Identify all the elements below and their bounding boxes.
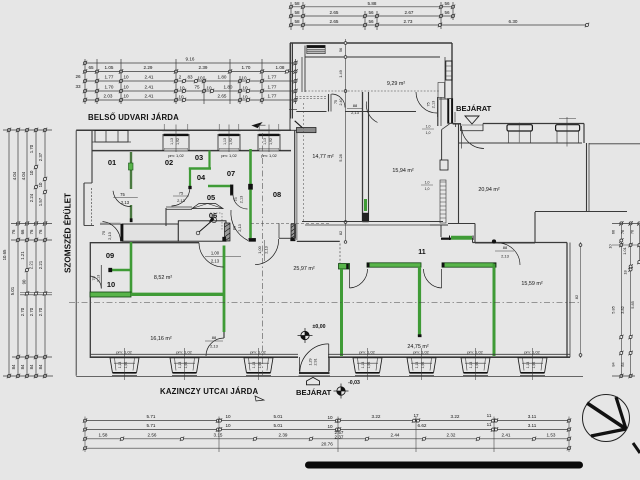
hatched pier A xyxy=(225,223,231,241)
svg-text:75: 75 xyxy=(234,197,238,201)
svg-text:56: 56 xyxy=(444,1,450,6)
svg-text:10: 10 xyxy=(179,86,185,91)
corridor door jambs xyxy=(437,97,439,117)
wall room01 top window bumps xyxy=(95,131,128,143)
svg-text:2,13: 2,13 xyxy=(121,200,130,205)
svg-text:pm: 1,02: pm: 1,02 xyxy=(524,350,540,355)
green wall room11 bottom left segment xyxy=(367,263,421,267)
svg-text:84: 84 xyxy=(11,364,16,369)
svg-text:2,13: 2,13 xyxy=(211,259,220,264)
dimension row 9.16 xyxy=(85,62,296,64)
svg-text:8,52 m²: 8,52 m² xyxy=(154,275,172,281)
green segment wall 15,94 xyxy=(364,199,367,211)
svg-text:14,77 m²: 14,77 m² xyxy=(312,154,333,160)
svg-text:3.22: 3.22 xyxy=(372,414,381,419)
wall between 14,77 and 15,94 xyxy=(362,92,364,222)
svg-text:2.65: 2.65 xyxy=(330,10,339,15)
hatched pier B xyxy=(291,224,296,238)
svg-text:9,29 m²: 9,29 m² xyxy=(387,81,405,87)
wall lower-left top xyxy=(90,242,199,244)
dimension row top-right 3 (58 2.65 56 2.73 / 6.30) xyxy=(291,24,587,26)
room06 circle xyxy=(211,217,216,222)
door arc room 15,59 xyxy=(498,243,520,265)
window box WR2 xyxy=(556,125,580,131)
svg-text:66: 66 xyxy=(611,230,616,234)
svg-text:2.24: 2.24 xyxy=(29,193,34,202)
window trapezoid bottom xyxy=(170,358,199,373)
svg-text:pm: 1,02: pm: 1,02 xyxy=(359,350,375,355)
svg-text:3.11: 3.11 xyxy=(528,414,537,419)
dimension row (65 1.05 2.29 2.39 1.70 1.08) xyxy=(85,71,296,73)
wall top right section outer xyxy=(483,123,584,125)
svg-text:88: 88 xyxy=(212,335,217,340)
entrance door top xyxy=(460,124,462,132)
svg-text:KAZINCZY UTCAI JÁRDA: KAZINCZY UTCAI JÁRDA xyxy=(160,387,258,396)
green wall 09/10 right xyxy=(130,242,133,294)
green wall 07/08 xyxy=(249,149,252,184)
svg-text:58: 58 xyxy=(294,19,300,24)
black pier wall 15,94 xyxy=(363,213,369,222)
svg-text:1,13: 1,13 xyxy=(223,138,227,145)
svg-text:56: 56 xyxy=(444,10,450,15)
svg-text:2,13: 2,13 xyxy=(210,344,219,349)
svg-text:03: 03 xyxy=(195,153,203,162)
svg-text:2.41: 2.41 xyxy=(145,75,154,80)
svg-text:1.53: 1.53 xyxy=(547,432,556,437)
svg-text:1,92: 1,92 xyxy=(176,138,180,145)
svg-text:2,40: 2,40 xyxy=(339,99,343,106)
door arc 8,52 top xyxy=(199,243,224,267)
wall 15,94 right double xyxy=(437,97,439,126)
svg-text:3.82: 3.82 xyxy=(620,306,625,314)
sidewalk line xyxy=(76,376,583,378)
left dimension tick rows xyxy=(7,128,11,132)
wall top outer line xyxy=(76,129,291,131)
svg-text:10: 10 xyxy=(327,424,333,429)
svg-text:1,13: 1,13 xyxy=(170,138,174,145)
svg-text:pm: 1,02: pm: 1,02 xyxy=(413,350,429,355)
wall bottom of middle rooms xyxy=(302,221,443,223)
svg-text:6.30: 6.30 xyxy=(509,19,518,24)
entrance arrow bottom xyxy=(307,377,320,384)
black dot on wall xyxy=(492,240,496,244)
svg-text:2.41: 2.41 xyxy=(145,94,154,99)
svg-text:BELSŐ UDVARI JÁRDA: BELSŐ UDVARI JÁRDA xyxy=(88,113,179,122)
svg-text:1.08: 1.08 xyxy=(276,65,285,70)
wall niche right of room08 xyxy=(279,237,291,239)
wall left outer lower xyxy=(89,242,91,358)
svg-text:2.21: 2.21 xyxy=(29,260,34,269)
svg-text:-0,03: -0,03 xyxy=(348,380,360,386)
svg-text:04: 04 xyxy=(197,173,206,182)
door box right xyxy=(448,99,453,124)
scale bar xyxy=(305,462,583,469)
svg-text:pm: 1,02: pm: 1,02 xyxy=(467,350,483,355)
wall right outer xyxy=(566,243,568,358)
svg-text:4.04: 4.04 xyxy=(12,171,17,180)
svg-text:2.65: 2.65 xyxy=(330,19,339,24)
svg-text:1,0: 1,0 xyxy=(425,187,430,191)
svg-text:16,16 m²: 16,16 m² xyxy=(150,336,171,342)
svg-text:84: 84 xyxy=(29,364,34,369)
svg-text:pm: 1,02: pm: 1,02 xyxy=(250,350,266,355)
svg-text:1,13: 1,13 xyxy=(252,362,256,369)
svg-text:2.70: 2.70 xyxy=(38,307,43,316)
right dimension ticks xyxy=(619,221,623,225)
svg-text:20,94 m²: 20,94 m² xyxy=(478,187,499,193)
svg-text:2,13: 2,13 xyxy=(351,110,360,115)
wall bottom 20,94 steps xyxy=(448,223,475,225)
wall step above room 11 xyxy=(440,225,442,237)
svg-text:1,0: 1,0 xyxy=(426,125,431,129)
section line vertical dash-dot xyxy=(262,133,264,375)
svg-text:SZOMSZÉD ÉPÜLET: SZOMSZÉD ÉPÜLET xyxy=(63,193,73,273)
window trapezoid bottom xyxy=(244,358,273,373)
svg-text:2.32: 2.32 xyxy=(447,432,456,437)
window trapezoid bottom xyxy=(518,358,547,373)
svg-text:4.04: 4.04 xyxy=(21,171,26,180)
svg-text:5.88: 5.88 xyxy=(368,1,377,6)
wall left inner face lower xyxy=(83,183,85,226)
svg-text:10: 10 xyxy=(242,86,248,91)
wall top of room 25,97 xyxy=(297,240,340,242)
wall stub room 14,77 left xyxy=(297,128,317,133)
svg-text:1.77: 1.77 xyxy=(268,75,277,80)
svg-text:65: 65 xyxy=(88,65,94,70)
wall bottom main xyxy=(90,356,298,358)
green block at wall01 top xyxy=(129,163,134,170)
svg-text:BEJÁRAT: BEJÁRAT xyxy=(296,388,332,397)
svg-text:2,13: 2,13 xyxy=(432,101,436,108)
window in top wall 9,29 xyxy=(307,45,325,48)
left dimension horizontal connectors xyxy=(3,129,52,131)
svg-text:2.21: 2.21 xyxy=(38,260,43,269)
svg-text:75: 75 xyxy=(179,191,184,196)
svg-text:11: 11 xyxy=(418,249,426,256)
svg-text:pm: 1,02: pm: 1,02 xyxy=(176,350,192,355)
entrance door bottom opening xyxy=(298,357,300,371)
svg-text:1,92: 1,92 xyxy=(367,362,371,369)
svg-text:82: 82 xyxy=(338,231,343,235)
mini dim 82 left of step xyxy=(345,225,347,242)
svg-text:76: 76 xyxy=(11,229,16,234)
svg-text:1,92: 1,92 xyxy=(229,138,233,145)
svg-text:1,92: 1,92 xyxy=(184,362,188,369)
svg-text:1,13: 1,13 xyxy=(361,362,365,369)
wall left step xyxy=(84,182,92,184)
svg-text:5.28: 5.28 xyxy=(338,154,343,162)
svg-text:1.70: 1.70 xyxy=(29,144,34,153)
svg-text:10: 10 xyxy=(178,95,184,100)
svg-text:33: 33 xyxy=(75,84,81,89)
entrance arrow top xyxy=(465,116,479,124)
green wall room07 bottom xyxy=(208,185,231,188)
green vertical x224 xyxy=(223,237,226,241)
wall middle-left inner face xyxy=(301,57,303,92)
svg-text:1,0: 1,0 xyxy=(426,131,431,135)
svg-text:2,91: 2,91 xyxy=(314,359,318,366)
svg-text:10: 10 xyxy=(29,170,34,175)
svg-text:1,13: 1,13 xyxy=(415,362,419,369)
window box top wall xyxy=(162,129,189,131)
svg-text:2.44: 2.44 xyxy=(391,432,400,437)
svg-text:2.70: 2.70 xyxy=(29,307,34,316)
svg-text:58: 58 xyxy=(294,10,300,15)
svg-text:75: 75 xyxy=(334,100,338,104)
wall 9,29 inner left face xyxy=(304,46,306,93)
svg-text:1.49: 1.49 xyxy=(338,70,343,78)
compass arrow lines xyxy=(587,403,626,429)
svg-text:58: 58 xyxy=(294,1,300,6)
svg-text:BEJÁRAT: BEJÁRAT xyxy=(456,104,492,113)
wall 05 left xyxy=(165,208,167,226)
svg-text:5.01: 5.01 xyxy=(274,414,283,419)
window box top wall xyxy=(257,129,280,131)
svg-text:1,00: 1,00 xyxy=(257,245,262,253)
svg-text:1.57: 1.57 xyxy=(38,197,43,206)
entrance door sill xyxy=(299,372,330,374)
svg-text:pm: 1,02: pm: 1,02 xyxy=(116,350,132,355)
svg-text:75: 75 xyxy=(92,276,96,280)
door sill room01-09 xyxy=(100,222,121,224)
svg-text:11: 11 xyxy=(487,413,492,418)
mini vertical dim 56/1.49/5.28 xyxy=(345,39,347,225)
svg-text:10: 10 xyxy=(197,76,203,81)
svg-text:10: 10 xyxy=(107,280,115,289)
wall top of 15,59 xyxy=(496,242,567,244)
svg-text:±0,00: ±0,00 xyxy=(313,324,326,330)
svg-text:88: 88 xyxy=(353,103,358,108)
svg-text:75: 75 xyxy=(101,230,106,235)
wall top main inner (rooms 02-08) xyxy=(92,150,291,152)
svg-text:1.70: 1.70 xyxy=(105,85,114,90)
svg-text:20.76: 20.76 xyxy=(321,442,333,447)
svg-text:1.77: 1.77 xyxy=(105,75,114,80)
svg-text:10: 10 xyxy=(206,86,212,91)
wall corner to entrance xyxy=(449,122,456,124)
svg-text:5.01: 5.01 xyxy=(10,286,15,295)
right dimension column lines xyxy=(620,223,622,376)
dimension row top-right 2 (58 2.65 56 2.67 56) xyxy=(291,15,453,17)
svg-text:09: 09 xyxy=(106,251,114,260)
svg-text:2.70: 2.70 xyxy=(20,307,25,316)
wall room01 top inner xyxy=(92,141,131,143)
svg-text:1,92: 1,92 xyxy=(532,362,536,369)
svg-text:1.21: 1.21 xyxy=(20,251,25,260)
svg-text:88: 88 xyxy=(232,226,237,230)
svg-text:05: 05 xyxy=(207,193,215,202)
svg-text:5.71: 5.71 xyxy=(147,414,156,419)
svg-text:2.29: 2.29 xyxy=(144,65,153,70)
svg-text:5.01: 5.01 xyxy=(274,423,283,428)
svg-text:1,92: 1,92 xyxy=(258,362,262,369)
svg-text:56: 56 xyxy=(368,19,374,24)
svg-text:1,00: 1,00 xyxy=(211,251,220,256)
dashed line room08 band xyxy=(251,222,330,224)
door room01 G1 arc xyxy=(113,191,131,207)
svg-text:2.39: 2.39 xyxy=(279,432,288,437)
green long wall under 8,52 thick part xyxy=(90,292,131,297)
svg-text:10: 10 xyxy=(241,76,247,81)
svg-text:2.41: 2.41 xyxy=(145,85,154,90)
svg-text:2.67: 2.67 xyxy=(405,10,414,15)
door arc room01-09 left xyxy=(103,222,121,242)
svg-text:15,94 m²: 15,94 m² xyxy=(392,168,413,174)
svg-text:2,13: 2,13 xyxy=(107,231,112,240)
window niche dashed face xyxy=(90,188,92,225)
svg-text:90: 90 xyxy=(22,279,27,284)
green wall room03 right xyxy=(208,151,210,169)
pier near 20,94 xyxy=(440,160,448,170)
dimension row (33 | 1.70 10 2.41 10 75 10 1.80 10 1.77) xyxy=(85,90,296,92)
svg-text:2,13: 2,13 xyxy=(237,224,242,232)
dimension vertical guides top-left xyxy=(84,59,86,104)
svg-text:56: 56 xyxy=(338,48,343,52)
green wall left vertical (x341) xyxy=(339,264,350,270)
svg-text:3.11: 3.11 xyxy=(528,423,537,428)
svg-text:2.37: 2.37 xyxy=(335,434,344,439)
green partition right xyxy=(493,264,496,357)
window box right wall 9,29 xyxy=(446,61,452,80)
dashed link to green wall xyxy=(339,244,341,264)
svg-text:2.73: 2.73 xyxy=(404,19,413,24)
svg-text:10: 10 xyxy=(123,94,129,99)
svg-text:2.65: 2.65 xyxy=(218,94,227,99)
wall right outer of 20,94 xyxy=(583,124,585,144)
green long wall under 8,52 xyxy=(131,293,225,296)
svg-text:82: 82 xyxy=(574,294,579,299)
wall left inner face upper xyxy=(91,131,93,183)
svg-text:02: 02 xyxy=(165,158,173,167)
bottom dim row 1 xyxy=(85,420,569,422)
svg-text:66: 66 xyxy=(20,229,25,234)
svg-text:2,13: 2,13 xyxy=(264,246,269,254)
green wall room04 top xyxy=(189,167,211,169)
wall left property line xyxy=(75,131,77,376)
corridor lines xyxy=(296,96,327,98)
green wall room11 bottom right segment xyxy=(442,263,496,267)
arrow mark near wall top xyxy=(253,123,262,128)
svg-text:08: 08 xyxy=(273,190,281,199)
svg-text:1,13: 1,13 xyxy=(118,362,122,369)
door arc 08 to corridor xyxy=(255,239,279,265)
svg-text:2.56: 2.56 xyxy=(148,432,157,437)
svg-text:1,0: 1,0 xyxy=(425,181,430,185)
svg-text:1.80: 1.80 xyxy=(224,85,233,90)
window trapezoid bottom xyxy=(407,358,436,373)
svg-text:07: 07 xyxy=(227,169,235,178)
wall left corner bottom xyxy=(84,225,94,227)
svg-text:10.65: 10.65 xyxy=(2,249,7,260)
entrance door leaf and arc xyxy=(328,344,330,373)
wall right of 9,29 room outer xyxy=(451,43,453,99)
svg-text:10: 10 xyxy=(38,182,43,187)
svg-text:1.80: 1.80 xyxy=(218,75,227,80)
door arc room11 middle opening xyxy=(441,269,443,288)
svg-text:75: 75 xyxy=(194,85,200,90)
wall top-middle outer xyxy=(290,42,452,44)
wall middle-left upper double xyxy=(289,43,291,119)
svg-text:pm: 1,02: pm: 1,02 xyxy=(261,153,277,158)
door arc corridor right xyxy=(416,92,437,113)
svg-text:83: 83 xyxy=(187,75,193,80)
door arc 16,16 bottom right xyxy=(206,338,224,356)
svg-text:1,92: 1,92 xyxy=(269,138,273,145)
door arc corridor middle xyxy=(366,102,377,123)
svg-text:5.85: 5.85 xyxy=(611,306,616,314)
right dimension horizontal connectors xyxy=(612,222,640,224)
svg-text:26: 26 xyxy=(75,74,81,79)
svg-text:75: 75 xyxy=(120,192,125,197)
svg-text:1,13: 1,13 xyxy=(469,362,473,369)
green wall 09/10 divider xyxy=(112,269,130,271)
bottom dim row 4 (20.76) xyxy=(85,447,569,449)
svg-text:2,13: 2,13 xyxy=(501,254,510,259)
svg-text:6.62: 6.62 xyxy=(418,423,427,428)
svg-text:2.41: 2.41 xyxy=(502,432,511,437)
green wall room04 left xyxy=(189,168,191,187)
svg-text:1,13: 1,13 xyxy=(263,138,267,145)
section line horizontal dash-dot xyxy=(69,302,580,304)
svg-text:1,13: 1,13 xyxy=(526,362,530,369)
bottom dim vertical guides xyxy=(84,417,86,453)
window WR2 centerline cross xyxy=(566,117,568,147)
dim 82 right side xyxy=(580,242,582,358)
compass rose circle xyxy=(583,395,630,442)
svg-text:76: 76 xyxy=(29,229,34,234)
wall middle-left double xyxy=(294,130,296,240)
svg-text:11: 11 xyxy=(487,422,492,427)
svg-text:2.39: 2.39 xyxy=(199,65,208,70)
svg-text:10: 10 xyxy=(225,414,231,419)
svg-text:88: 88 xyxy=(503,245,508,250)
svg-text:1.58: 1.58 xyxy=(99,432,108,437)
dimension row (2.03 10 2.41 10 2.65 10 1.77) xyxy=(85,99,296,101)
svg-text:10: 10 xyxy=(123,75,129,80)
svg-text:pm: 1,02: pm: 1,02 xyxy=(221,153,237,158)
svg-text:2.37: 2.37 xyxy=(38,152,43,161)
svg-text:1,92: 1,92 xyxy=(124,362,128,369)
dimension row top-right 1 (58 5.88 56) xyxy=(291,6,453,8)
wall middle-left door splay xyxy=(295,121,304,129)
window trapezoid bottom xyxy=(461,358,490,373)
door arc left wall 09 xyxy=(90,276,101,289)
door 04-05 arc xyxy=(172,187,191,206)
door arc room11 left opening xyxy=(349,269,351,288)
dimension row (26 | 1.77 10 2.41 2 83 10 1.80 10 1.77) xyxy=(85,80,296,82)
wall 9,29 inner top xyxy=(305,56,440,58)
svg-text:76: 76 xyxy=(38,229,43,234)
svg-text:1,92: 1,92 xyxy=(421,362,425,369)
dimension vertical guides top-right xyxy=(290,2,292,30)
svg-text:15,59 m²: 15,59 m² xyxy=(521,281,542,287)
green wall step segment xyxy=(441,238,451,240)
room06 dashed box xyxy=(210,212,222,214)
svg-text:9.16: 9.16 xyxy=(186,57,195,62)
svg-text:1.77: 1.77 xyxy=(268,85,277,90)
svg-text:10: 10 xyxy=(225,423,231,428)
window box WR1 xyxy=(507,125,532,131)
svg-text:2.03: 2.03 xyxy=(104,94,113,99)
svg-text:1,29: 1,29 xyxy=(309,359,313,366)
stair direction arrow xyxy=(199,219,214,232)
svg-text:3.22: 3.22 xyxy=(451,414,460,419)
bottom dim row 3 xyxy=(85,438,569,440)
left dimension vertical lines xyxy=(8,130,10,376)
svg-text:01: 01 xyxy=(108,158,116,167)
svg-text:1.01: 1.01 xyxy=(622,247,627,255)
svg-text:5.85: 5.85 xyxy=(630,301,635,309)
